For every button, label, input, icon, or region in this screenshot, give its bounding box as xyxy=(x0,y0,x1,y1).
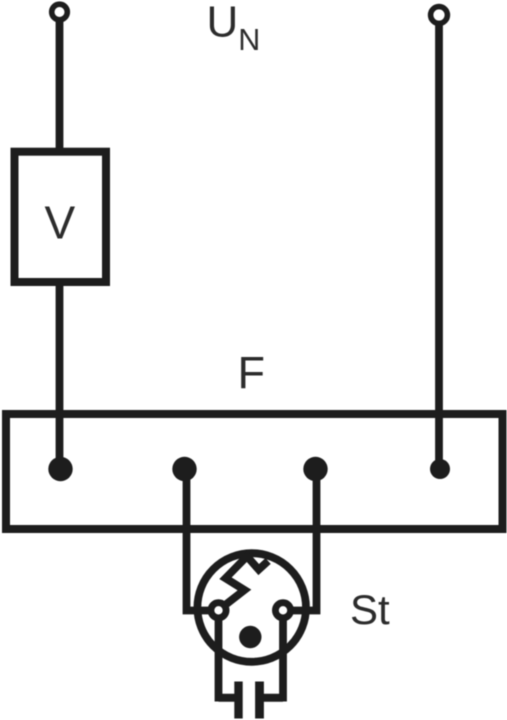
svg-text:St: St xyxy=(350,586,390,633)
starter contact left small circle xyxy=(211,603,226,618)
starter St outer circle xyxy=(197,553,306,662)
starter left pin xyxy=(234,682,242,719)
starter left lead down from contact xyxy=(215,611,223,702)
starter center dot xyxy=(239,626,261,648)
node 4 dot xyxy=(430,459,450,479)
wire from left terminal down to ballast V xyxy=(56,18,64,151)
svg-text:V: V xyxy=(45,197,76,249)
node 3 dot xyxy=(303,457,327,481)
node 2 dot xyxy=(172,457,196,481)
ballast V box xyxy=(15,152,107,282)
starter contact right small circle xyxy=(275,603,290,618)
terminal circle right xyxy=(431,7,448,24)
wire from node 3 down to starter xyxy=(287,468,317,611)
starter right lead down from contact xyxy=(279,611,287,702)
svg-text:UN: UN xyxy=(207,0,261,57)
terminal circle left xyxy=(52,4,68,20)
starter right hook horizontal xyxy=(256,694,283,702)
wire from ballast V down to node 1 xyxy=(56,284,64,468)
starter left hook horizontal xyxy=(219,694,243,702)
starter right pin xyxy=(255,682,264,719)
wire from right terminal down to node 4 xyxy=(435,22,443,468)
starter bimetal switch zigzag xyxy=(220,556,268,609)
svg-text:F: F xyxy=(238,347,266,398)
wire from node 2 down to starter xyxy=(187,468,216,611)
lamp F box xyxy=(6,414,503,529)
node 1 dot xyxy=(48,457,72,481)
